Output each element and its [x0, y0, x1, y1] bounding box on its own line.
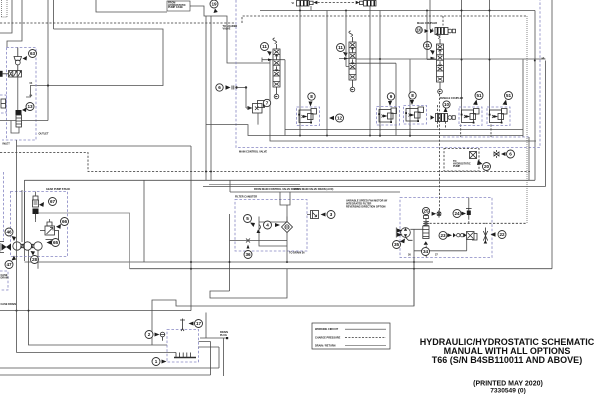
- motor shaft: [406, 237, 413, 240]
- main control valve dashed box: [236, 0, 540, 148]
- arrow 23: [447, 233, 452, 237]
- svg-text:CHARGE PRESSURE: CHARGE PRESSURE: [315, 336, 341, 339]
- svg-text:INLET: INLET: [3, 143, 11, 146]
- DRAIN PLUG label: [220, 331, 228, 337]
- svg-text:7330549 (0): 7330549 (0): [490, 388, 526, 395]
- wire: [229, 181, 231, 193]
- arrow 24: [461, 212, 466, 216]
- svg-text:6: 6: [509, 152, 512, 157]
- suction dashed box bottom-left: [0, 271, 9, 290]
- arrow 47: [12, 256, 17, 261]
- wire: [7, 0, 22, 48]
- callout 2: [145, 331, 153, 339]
- wire: [0, 0, 12, 33]
- svg-text:DRAIN: DRAIN: [1, 277, 9, 280]
- check valve E dashed box: [487, 107, 510, 126]
- wire: [190, 146, 192, 311]
- callout 6b: [507, 150, 515, 158]
- wire: [47, 0, 49, 121]
- svg-text:17: 17: [196, 321, 202, 326]
- svg-text:GEAR PUMP STACK: GEAR PUMP STACK: [46, 188, 70, 191]
- svg-text:47: 47: [6, 262, 12, 267]
- wire male coupler to S3: [442, 16, 444, 26]
- wire: [96, 0, 167, 12]
- callout 17: [195, 320, 203, 328]
- svg-text:FROM MAIN VALVE DRAIN (AUX): FROM MAIN VALVE DRAIN (AUX): [294, 188, 334, 191]
- arrow 20: [477, 160, 483, 165]
- callout 67: [49, 198, 57, 206]
- filter bypass arrow: [424, 241, 428, 245]
- wire: [205, 313, 207, 339]
- wire: [11, 121, 19, 134]
- wire right outer: [551, 0, 553, 269]
- wire: [26, 86, 31, 98]
- svg-text:51: 51: [506, 93, 512, 98]
- node junction: [47, 84, 49, 86]
- reducing valve B dashed box: [377, 107, 400, 126]
- wire: [310, 6, 312, 11]
- bypass valve: [257, 225, 261, 234]
- arrow to relief: [23, 56, 28, 61]
- svg-text:23: 23: [440, 233, 446, 238]
- svg-text:TO DRAIN 36: TO DRAIN 36: [289, 252, 305, 255]
- male coupler glyph: [430, 28, 456, 35]
- callout 10 female: [443, 101, 450, 108]
- callout 8: [308, 93, 315, 100]
- dotted pump case box top-left: [2, 0, 8, 17]
- svg-text:7: 7: [266, 101, 269, 106]
- main drain line y192: [230, 191, 400, 193]
- svg-text:46: 46: [6, 230, 12, 235]
- wire gear pump out: [36, 213, 130, 269]
- callout 51b: [505, 92, 513, 100]
- reversing valve block: [467, 232, 478, 241]
- svg-text:WORKING CIRCUIT: WORKING CIRCUIT: [315, 328, 339, 331]
- inner box bottom y141: [270, 59, 536, 141]
- svg-text:12: 12: [337, 116, 343, 121]
- pilot valve label: [223, 25, 238, 31]
- arrow to relief 66: [56, 224, 61, 229]
- wire: [439, 34, 441, 37]
- arrow 9: [388, 101, 392, 106]
- svg-text:10: 10: [444, 102, 450, 107]
- check valve mid: [232, 86, 247, 90]
- callout 65: [52, 239, 60, 247]
- wire: [534, 11, 536, 181]
- to hydrostatic pump dashed box: [444, 149, 479, 172]
- callout 9: [387, 93, 394, 100]
- svg-text:OUTLET: OUTLET: [39, 133, 49, 136]
- reducing valve A dashed box: [297, 107, 320, 126]
- valve pilot dashed drops: [380, 124, 491, 137]
- wire diamond top: [286, 205, 288, 222]
- wire y311: [0, 310, 191, 312]
- callout 47: [5, 261, 13, 269]
- motor wires: [410, 198, 469, 307]
- dashed link between solenoids: [318, 2, 356, 4]
- gear pump 1: [13, 242, 21, 250]
- arrow 8b: [410, 100, 414, 105]
- svg-text:24: 24: [454, 211, 460, 216]
- relief valve 7: [246, 88, 267, 125]
- svg-text:(PRINTED MAY 2020): (PRINTED MAY 2020): [473, 381, 543, 388]
- relief valve charge: [14, 48, 22, 71]
- shutoff X valve: [483, 228, 487, 244]
- wire: [53, 0, 55, 29]
- drain steps wires: [199, 338, 224, 376]
- callout 1: [152, 358, 160, 366]
- callout 51a: [475, 92, 483, 100]
- wire: [528, 137, 530, 180]
- charge pressure dashed line: [0, 22, 236, 24]
- svg-text:13: 13: [27, 104, 33, 109]
- svg-text:11: 11: [262, 44, 267, 49]
- stack relief valve: [33, 196, 39, 219]
- arrow 5: [250, 223, 255, 228]
- callout 8b: [409, 92, 416, 99]
- svg-text:PUMP: PUMP: [453, 165, 461, 168]
- callout 28: [31, 256, 39, 264]
- svg-text:PLUG: PLUG: [220, 334, 227, 337]
- callout 35: [393, 241, 401, 249]
- spool valve S2: [349, 31, 356, 92]
- filter inlet tab: [280, 192, 290, 205]
- svg-text:MAIN CONTROL VALVE: MAIN CONTROL VALVE: [239, 151, 267, 154]
- svg-text:10: 10: [416, 28, 422, 33]
- callout 34: [422, 248, 430, 256]
- gear pump dashed box: [11, 192, 68, 257]
- svg-text:REVERSING DIRECTION OPTION: REVERSING DIRECTION OPTION: [346, 206, 386, 209]
- arrow 51b: [503, 100, 508, 106]
- hydrostatic pump dashed box: [2, 48, 36, 141]
- charge filter column: [16, 115, 22, 127]
- shaft hatch 1: [21, 244, 24, 247]
- spool valve S1: [273, 38, 280, 99]
- svg-text:T66 (S/N B4SB110011 AND ABOVE): T66 (S/N B4SB110011 AND ABOVE): [432, 355, 582, 365]
- svg-text:19: 19: [211, 2, 217, 7]
- arrow 6: [226, 85, 231, 89]
- callout 23: [439, 231, 447, 239]
- S2 inlet stub: [339, 11, 396, 136]
- svg-text:63: 63: [30, 51, 36, 56]
- bus wire y270: [25, 261, 434, 263]
- drain plug stub: [200, 337, 227, 339]
- svg-text:25: 25: [423, 209, 429, 214]
- arrow 51a: [473, 100, 478, 106]
- servo 4-way valve: [0, 71, 22, 78]
- arrow 46: [12, 236, 17, 241]
- svg-text:5: 5: [246, 216, 249, 221]
- gear pump stack top / drain bus: [25, 179, 536, 181]
- wire: [379, 11, 381, 136]
- arrow 6b: [501, 152, 506, 156]
- junction dots drain: [205, 171, 207, 173]
- svg-text:6: 6: [218, 85, 221, 90]
- svg-text:PUMP CASE: PUMP CASE: [168, 6, 183, 9]
- filter diamond: [282, 222, 293, 233]
- arrow 12: [329, 116, 334, 120]
- wire: [30, 29, 163, 86]
- callout 5: [244, 215, 252, 223]
- callout 24: [453, 210, 461, 218]
- callout 22: [498, 231, 506, 239]
- fan blades: [396, 228, 402, 238]
- wire y58 top of right block: [356, 58, 546, 60]
- coupler pair 23: [453, 233, 467, 237]
- callout 13: [26, 103, 34, 111]
- fan internal dashed lines: [430, 218, 486, 224]
- reducing valve C dashed box: [404, 106, 427, 125]
- svg-text:22: 22: [499, 232, 505, 237]
- callout 20: [483, 163, 491, 171]
- outlet wire: [0, 120, 48, 122]
- callout 66: [61, 218, 69, 226]
- dashed charge line y186: [203, 61, 546, 187]
- SECTION: legend box: [312, 323, 390, 349]
- gear pump stack solid box: [24, 180, 26, 261]
- breather 25: [437, 210, 441, 218]
- callout 12: [336, 114, 344, 122]
- coupler block bottom: [285, 129, 523, 131]
- arrow 28: [31, 251, 36, 256]
- callout 4: [264, 221, 272, 229]
- callout 3: [327, 211, 335, 219]
- callout 11 S3: [424, 42, 432, 50]
- FROM HYDROSTATIC PUMP CASE label box: [167, 1, 190, 11]
- filter cartridge: [423, 216, 429, 239]
- wire: [489, 0, 491, 114]
- drain bus y180: [210, 16, 212, 180]
- callout 46: [5, 228, 13, 236]
- female coupler glyph: [431, 105, 456, 128]
- callout 6 left: [216, 84, 223, 91]
- arrow 8: [309, 102, 313, 107]
- svg-text:20: 20: [484, 164, 490, 169]
- arrow 3: [321, 213, 326, 217]
- bottom bus 1: [0, 367, 219, 369]
- svg-text:FEMALE COUPLER: FEMALE COUPLER: [440, 97, 463, 100]
- svg-text:ab: ab: [542, 57, 545, 60]
- arrow 11 S2: [343, 52, 348, 57]
- secondary relief valve: [40, 222, 59, 240]
- solenoid valve SV1: [292, 1, 318, 7]
- wire: [205, 16, 207, 180]
- dashed wire y137: [443, 136, 529, 138]
- svg-text:11: 11: [338, 45, 343, 50]
- svg-text:CASE DRAIN: CASE DRAIN: [1, 303, 17, 306]
- callout 7: [263, 99, 270, 106]
- case drain top bus: [260, 10, 535, 12]
- svg-text:4: 4: [266, 223, 269, 228]
- svg-text:67: 67: [50, 199, 56, 204]
- callout 19: [210, 0, 218, 8]
- check valve 24: [466, 209, 472, 218]
- wire: [35, 212, 38, 214]
- wire: [326, 11, 328, 136]
- S1 inlet stub: [258, 58, 273, 64]
- arrow 65: [47, 240, 52, 244]
- S3 inlet stub: [427, 11, 437, 60]
- svg-text:FROM MAIN CONTROL VALVE DRAIN: FROM MAIN CONTROL VALVE DRAIN: [254, 188, 299, 191]
- aux valve small dashed box left: [0, 95, 6, 113]
- solenoid valve SV2: [356, 1, 376, 7]
- faint parallel line: [209, 184, 300, 186]
- SECTION: title block: [420, 337, 595, 395]
- bottom bus 2: [0, 374, 211, 376]
- callout 10 male: [416, 27, 423, 34]
- callout 11 S1: [261, 43, 269, 51]
- arrow 10 male: [425, 29, 429, 33]
- arrow 2: [155, 333, 160, 337]
- TO HYDROSTATIC PUMP label: [453, 160, 471, 168]
- svg-text:36: 36: [245, 252, 251, 257]
- arrow 22: [491, 232, 496, 236]
- dashed to x valve: [485, 222, 527, 224]
- drain dotted line right: [526, 16, 528, 223]
- arrow to relief 67: [39, 202, 44, 207]
- suction strainer comb: [174, 353, 196, 358]
- arrow 36: [247, 245, 250, 249]
- callout 36: [244, 251, 252, 259]
- svg-text:MALE COUPLER: MALE COUPLER: [417, 22, 437, 25]
- breather plug glyph: [180, 319, 185, 332]
- square X component: [470, 152, 477, 159]
- wire: [369, 6, 371, 136]
- wire: [299, 6, 301, 136]
- drain plug dashed box: [167, 330, 199, 363]
- fan motor label: [346, 200, 387, 209]
- wire: [17, 352, 175, 354]
- svg-text:28: 28: [32, 257, 38, 262]
- dashed drain line mid: [0, 153, 530, 172]
- filter inner box: [259, 217, 287, 247]
- wire: [190, 0, 430, 63]
- svg-text:51: 51: [476, 93, 482, 98]
- arrow 11 S1: [267, 51, 272, 56]
- arrow to solenoid: [22, 108, 27, 113]
- svg-text:A: A: [432, 29, 434, 32]
- left dashed blue edge: [3, 172, 5, 242]
- arrow 1: [162, 360, 167, 364]
- wire: [17, 77, 19, 110]
- gear pump 2: [23, 242, 31, 250]
- svg-text:3: 3: [330, 212, 333, 217]
- wire filter drain: [210, 214, 287, 298]
- arrow 4: [275, 223, 280, 227]
- gear pump 3: [34, 242, 42, 250]
- svg-text:66: 66: [62, 219, 68, 224]
- svg-text:DRAIN / RETURN: DRAIN / RETURN: [315, 345, 336, 348]
- spool valve S3: [436, 33, 443, 94]
- wire: [29, 250, 168, 345]
- svg-text:9: 9: [390, 94, 393, 99]
- wire y268 right: [152, 258, 414, 346]
- bus wire y266: [130, 268, 553, 270]
- svg-text:1: 1: [155, 359, 158, 364]
- svg-text:8: 8: [411, 93, 414, 98]
- wire: [522, 60, 524, 138]
- filter drain test X: [230, 233, 288, 263]
- arrow 19: [214, 9, 218, 14]
- svg-text:FILTER CANISTER: FILTER CANISTER: [235, 196, 257, 199]
- svg-text:35: 35: [394, 242, 400, 247]
- callout 11 S2: [337, 44, 345, 52]
- svg-text:11: 11: [425, 43, 430, 48]
- pump drop wires: [17, 140, 39, 353]
- pilot dashed line: [242, 16, 527, 23]
- filter canister dashed box: [235, 200, 307, 252]
- orifice valve 3: [307, 211, 319, 219]
- check valve D dashed box: [459, 107, 482, 126]
- wire: [461, 0, 463, 114]
- arrow 17: [189, 322, 194, 326]
- svg-text:VI: VI: [292, 2, 295, 5]
- charge pump solenoid: [16, 110, 22, 115]
- svg-text:VALVE: VALVE: [223, 28, 231, 31]
- callout 25: [422, 207, 429, 214]
- wire: [143, 180, 145, 262]
- plug glyph 2: [160, 332, 165, 341]
- arrow 11 S3: [430, 50, 435, 55]
- svg-text:2: 2: [148, 332, 151, 337]
- inner box bottom y135: [206, 60, 523, 136]
- tee fitting: [494, 150, 499, 158]
- fan motor circle: [401, 228, 411, 238]
- wire: [17, 145, 192, 147]
- junction dots top bus: [461, 10, 463, 12]
- wire: [409, 60, 411, 136]
- wire relief top: [36, 192, 50, 223]
- svg-text:8: 8: [310, 94, 313, 99]
- arrow 25: [432, 212, 437, 216]
- svg-text:34: 34: [423, 249, 429, 254]
- svg-text:65: 65: [53, 240, 59, 245]
- dashed breather drop: [439, 94, 441, 211]
- callout 63: [29, 50, 37, 58]
- fan motor dashed box: [400, 198, 492, 258]
- shaft hatch 2: [31, 244, 34, 247]
- wire pump2 top: [22, 190, 25, 242]
- junction: [534, 60, 536, 62]
- arrow 35: [400, 239, 405, 244]
- tandem shaft input: [0, 242, 11, 253]
- junction dots on y135: [299, 135, 301, 137]
